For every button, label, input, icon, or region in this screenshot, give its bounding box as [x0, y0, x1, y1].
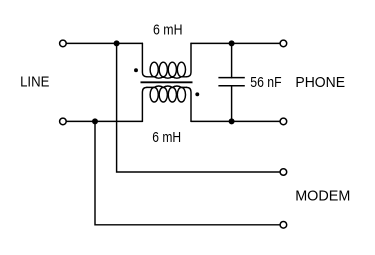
capacitor C1 bottom lead — [231, 86, 233, 122]
terminal MODEM bottom — [280, 222, 287, 229]
capacitor C1 56 nF plates — [218, 77, 244, 79]
svg-text:PHONE: PHONE — [295, 75, 345, 91]
wire: LINE bottom to transformer — [67, 120, 142, 122]
wire: transformer to PHONE bottom — [191, 120, 279, 122]
phase dot L2 — [195, 92, 199, 96]
wire: junction B down to MODEM bottom wire — [95, 121, 279, 224]
wire: transformer bottom-right leg — [187, 87, 192, 121]
wire: transformer bottom-left leg — [142, 87, 147, 121]
svg-text:LINE: LINE — [20, 74, 50, 90]
wire: transformer to PHONE top — [191, 42, 279, 44]
terminal MODEM top — [280, 169, 287, 176]
wire: transformer top-right leg — [187, 43, 192, 76]
svg-text:MODEM: MODEM — [295, 189, 350, 205]
wire: junction A down to MODEM top wire — [117, 43, 280, 172]
wire: transformer top-left leg — [142, 43, 147, 76]
junction dot A — [114, 40, 120, 46]
terminal PHONE top — [280, 40, 287, 47]
svg-text:6 mH: 6 mH — [152, 130, 181, 146]
junction dot B — [92, 118, 98, 124]
svg-text:6 mH: 6 mH — [153, 22, 183, 38]
junction dot cap top — [229, 40, 235, 46]
junction dot cap bottom — [229, 118, 235, 124]
inductor L2 loops — [150, 87, 158, 102]
transformer core — [141, 81, 193, 83]
phase dot L1 — [134, 68, 138, 72]
capacitor C1 top lead — [231, 43, 233, 77]
wire: LINE top to transformer — [67, 42, 142, 44]
terminal PHONE bottom — [280, 118, 287, 125]
inductor L1 6 mH (top winding baseline) — [147, 77, 187, 78]
inductor L1 loops — [150, 62, 158, 77]
inductor L2 6 mH (bottom winding baseline) — [147, 86, 187, 87]
terminal LINE top — [60, 40, 67, 47]
svg-text:56 nF: 56 nF — [250, 75, 281, 91]
terminal LINE bottom — [60, 118, 67, 125]
